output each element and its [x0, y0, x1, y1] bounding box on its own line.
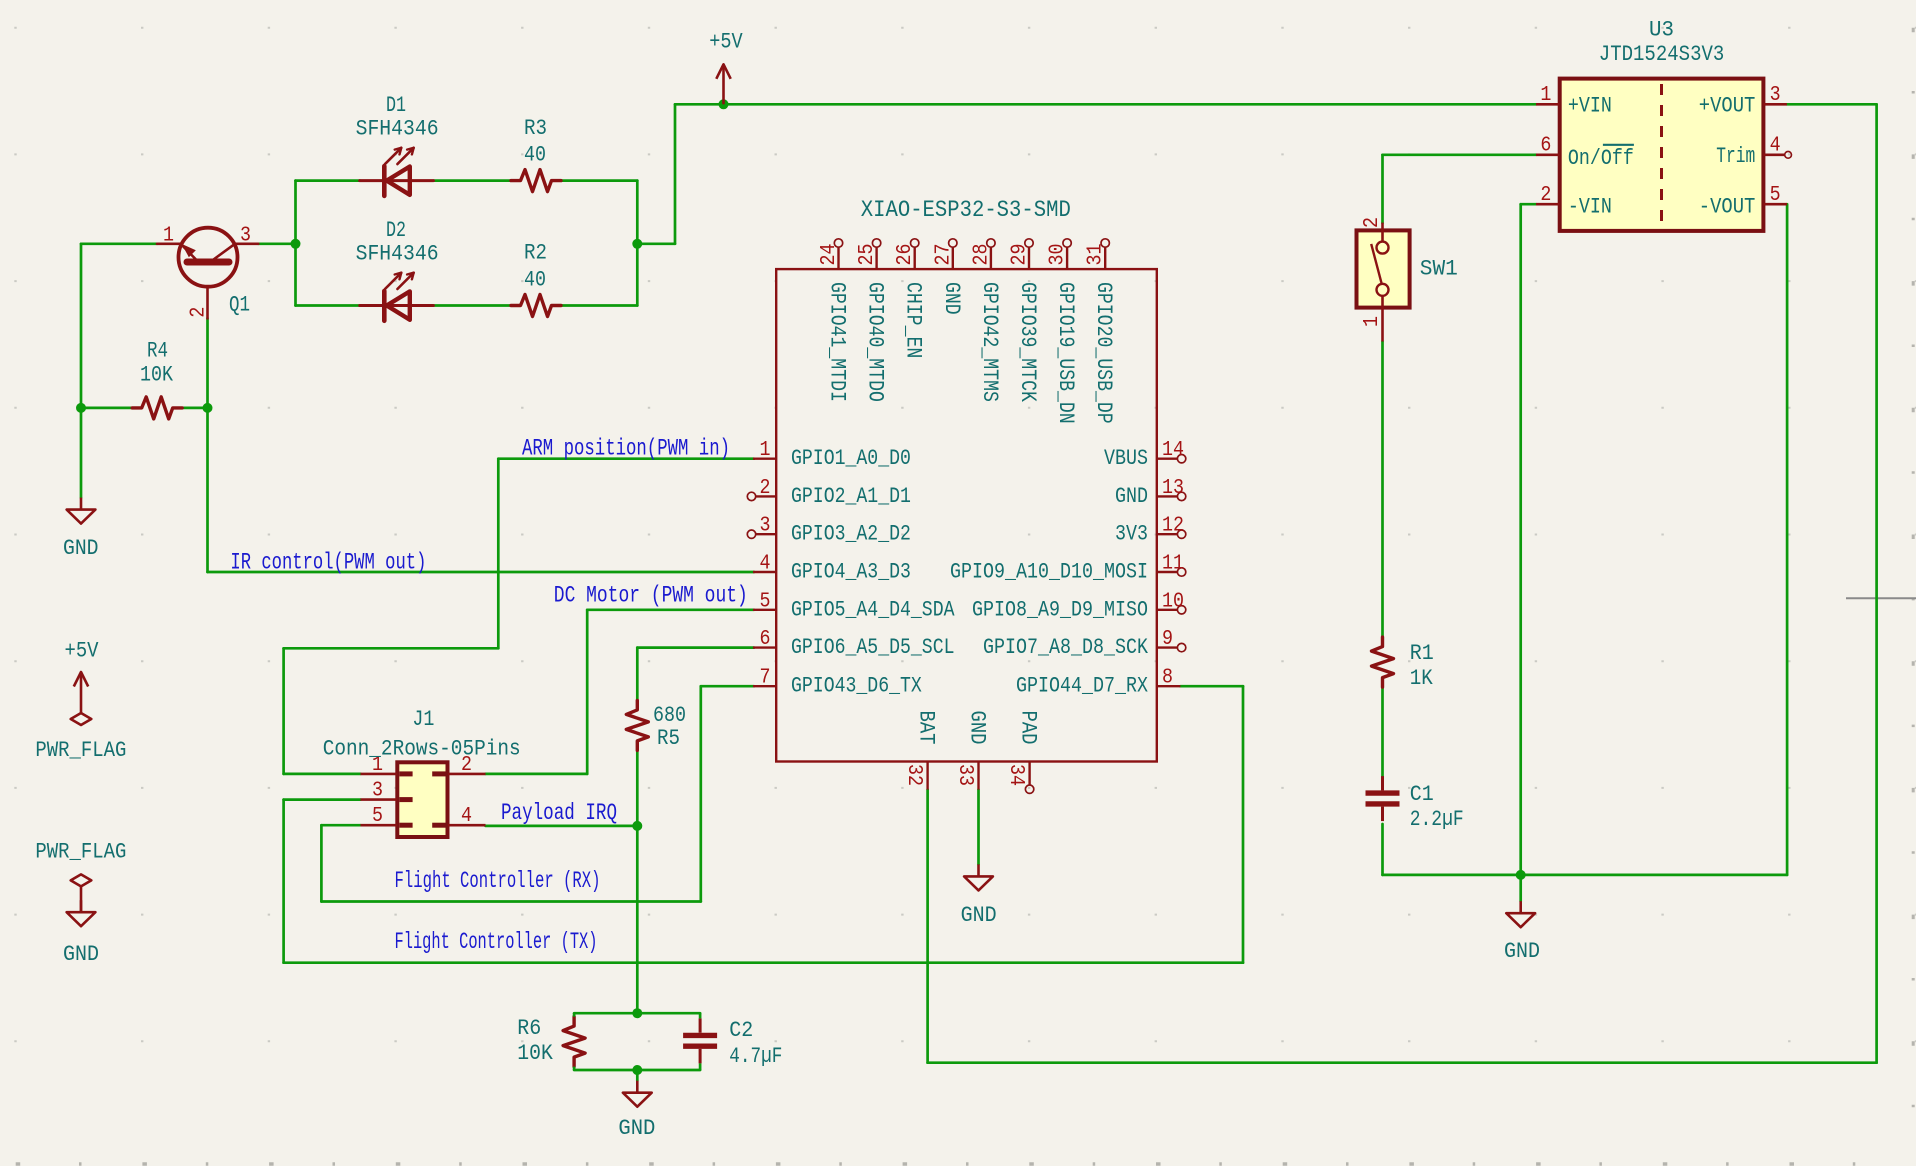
wire ARM position to ESP pin1	[498, 457, 754, 460]
U3 pin 6 lead	[1536, 154, 1560, 157]
ground bottom center	[623, 1081, 652, 1107]
wire Flight Controller TX	[284, 961, 1243, 964]
wire Flight Controller RX	[321, 900, 700, 903]
SW1 pin 1 lead	[1381, 296, 1384, 342]
wire BAT down	[926, 790, 929, 1063]
wire D2 to R2	[434, 304, 511, 307]
junction R4 right node	[203, 403, 213, 413]
junction R6C2 top node	[632, 1008, 642, 1018]
wire to GND top left	[80, 408, 83, 498]
power +5V left	[74, 672, 88, 713]
ESP32 pin 27 lead (unconnected)	[952, 248, 954, 270]
ESP32 pin 12 lead	[1157, 533, 1177, 535]
svg-text:10K: 10K	[517, 1041, 553, 1066]
ESP32 pin 6 lead	[753, 646, 776, 648]
wire payload node down to R6C2	[636, 826, 639, 1013]
wire R2 to right vertical	[561, 304, 637, 307]
capacitor C1	[1366, 776, 1400, 821]
wire On/Off to SW1	[1383, 153, 1537, 156]
J1 pin 2 lead	[448, 773, 485, 776]
ESP32 pin 3 lead	[756, 533, 776, 535]
svg-text:On/Off: On/Off	[1568, 146, 1634, 171]
wire diode mid to +5V drop	[637, 242, 675, 245]
resistor R4	[132, 397, 182, 419]
power flag stem	[80, 886, 83, 912]
ESP32 pin 24 lead (unconnected)	[837, 248, 839, 270]
wire to J1 pin3	[284, 798, 361, 801]
svg-text:6: 6	[1540, 135, 1551, 158]
wire R1 to C1	[1381, 687, 1384, 776]
svg-text:Conn_2Rows-05Pins: Conn_2Rows-05Pins	[323, 737, 521, 762]
svg-text:+5V: +5V	[709, 30, 743, 55]
ESP32 pin 29 lead (unconnected)	[1028, 248, 1030, 270]
svg-text:C1: C1	[1410, 782, 1434, 807]
wire ARM horizontal	[284, 647, 499, 650]
svg-text:14: 14	[1162, 439, 1184, 462]
svg-text:DC Motor (PWM out): DC Motor (PWM out)	[554, 583, 748, 609]
svg-text:GPIO19_USB_DN: GPIO19_USB_DN	[1053, 282, 1078, 424]
connector J1 body	[397, 762, 447, 837]
svg-text:2: 2	[1361, 217, 1384, 228]
svg-text:R4: R4	[147, 339, 168, 364]
junction R4 left node	[76, 403, 86, 413]
U3 pin 2 lead	[1536, 203, 1560, 206]
svg-text:ARM position(PWM in): ARM position(PWM in)	[522, 436, 730, 462]
wire C2 bottom corner	[699, 1063, 702, 1070]
svg-text:29: 29	[1009, 244, 1032, 266]
svg-text:2: 2	[760, 477, 771, 500]
ESP32 pin 5 lead	[753, 609, 776, 611]
resistor R2	[511, 295, 561, 317]
U3 pin 4 lead (unconnected)	[1763, 154, 1785, 157]
svg-text:R2: R2	[524, 241, 547, 266]
svg-text:4: 4	[760, 553, 771, 576]
svg-text:2: 2	[188, 307, 211, 318]
resistor R5	[626, 700, 648, 750]
wire C2 top corner	[699, 1013, 702, 1018]
svg-text:GPIO5_A4_D4_SDA: GPIO5_A4_D4_SDA	[791, 597, 955, 622]
wire D2 anode	[296, 304, 360, 307]
svg-text:Trim: Trim	[1716, 144, 1755, 169]
svg-text:GPIO44_D7_RX: GPIO44_D7_RX	[1016, 674, 1148, 699]
wire pin8 vertical	[1242, 686, 1245, 963]
svg-text:4: 4	[461, 805, 472, 828]
svg-text:JTD1524S3V3: JTD1524S3V3	[1599, 42, 1725, 67]
svg-text:10K: 10K	[140, 363, 174, 388]
power flag PWR_FLAG lower	[71, 874, 92, 886]
power +5V top	[716, 64, 730, 104]
svg-text:33: 33	[953, 764, 976, 786]
svg-text:3: 3	[240, 225, 251, 248]
svg-text:Flight Controller (TX): Flight Controller (TX)	[395, 929, 598, 955]
wire ESP pin8 row	[1180, 685, 1243, 688]
svg-text:32: 32	[902, 764, 925, 786]
svg-text:Q1: Q1	[229, 293, 250, 318]
svg-text:1K: 1K	[1410, 666, 1434, 691]
wire R5 bottom to payload node	[636, 750, 639, 826]
wire diode rows right vertical	[636, 181, 639, 306]
ESP32 pin 32 lead	[926, 762, 928, 790]
J1 pin 4 lead	[448, 824, 485, 827]
wire left rail down to R4	[80, 244, 83, 408]
wire pin7 vertical	[699, 686, 702, 901]
svg-text:13: 13	[1162, 477, 1184, 500]
ESP32 pin 14 lead	[1157, 458, 1177, 460]
svg-text:GPIO2_A1_D1: GPIO2_A1_D1	[791, 484, 911, 509]
svg-text:Payload IRQ: Payload IRQ	[501, 800, 617, 826]
ESP32 pin 1 lead	[753, 458, 776, 460]
ESP32 pin 7 lead	[753, 685, 776, 687]
power flag PWR_FLAG upper	[71, 713, 92, 725]
svg-text:D1: D1	[386, 93, 406, 118]
svg-text:R1: R1	[1410, 641, 1434, 666]
svg-text:2.2µF: 2.2µF	[1410, 807, 1464, 832]
svg-text:10: 10	[1162, 590, 1184, 613]
svg-text:J1: J1	[412, 707, 434, 732]
svg-text:BAT: BAT	[914, 711, 939, 745]
svg-text:GND: GND	[965, 711, 990, 745]
wire R4 left	[81, 407, 133, 410]
wire RX up to J1 pin5	[320, 825, 323, 901]
svg-text:34: 34	[1004, 764, 1027, 786]
wire R6C2 bottom rail left	[574, 1069, 637, 1072]
svg-text:-VOUT: -VOUT	[1699, 194, 1756, 219]
wire -VOUT vertical	[1786, 204, 1789, 875]
svg-text:3V3: 3V3	[1115, 522, 1148, 547]
ground bottom right	[1506, 901, 1535, 927]
svg-text:24: 24	[818, 244, 841, 266]
U3 pin 3 lead	[1763, 103, 1787, 106]
svg-text:11: 11	[1162, 553, 1184, 576]
wire +5V rail drop	[674, 104, 677, 244]
U3 pin 5 lead	[1763, 203, 1787, 206]
U3 pin 1 lead	[1536, 103, 1560, 106]
wire pin6 down to R5	[636, 648, 639, 701]
ESP32 pin 9 lead	[1157, 646, 1177, 648]
junction R6C2 bottom node	[632, 1065, 642, 1075]
ESP32 pin 8 lead	[1157, 685, 1181, 687]
svg-text:GPIO40_MTDO: GPIO40_MTDO	[863, 282, 888, 402]
svg-text:R3: R3	[524, 116, 547, 141]
J1 pin 2 stub	[432, 771, 445, 776]
wire to GND bottom center	[636, 1070, 639, 1081]
svg-text:9: 9	[1162, 628, 1173, 651]
svg-text:GND: GND	[1504, 939, 1540, 964]
junction +5V rail	[719, 99, 729, 109]
svg-text:GPIO39_MTCK: GPIO39_MTCK	[1015, 282, 1040, 403]
svg-text:PWR_FLAG: PWR_FLAG	[35, 839, 126, 864]
wire to J1 pin5	[321, 824, 360, 827]
svg-text:12: 12	[1162, 515, 1184, 538]
svg-text:GND: GND	[1115, 484, 1148, 509]
svg-text:3: 3	[372, 780, 383, 803]
wire R4 right	[182, 407, 208, 410]
J1 pin 3 stub	[399, 797, 412, 802]
ground under ESP32	[964, 864, 993, 890]
svg-text:1: 1	[1361, 316, 1384, 327]
ESP32 pin 28 lead (unconnected)	[990, 248, 992, 270]
svg-text:27: 27	[932, 244, 955, 266]
J1 pin 5 stub	[399, 823, 412, 828]
wire DC motor vertical	[586, 610, 589, 774]
svg-text:6: 6	[760, 628, 771, 651]
wire R3 to right vertical	[561, 179, 637, 182]
svg-text:GPIO20_USB_DP: GPIO20_USB_DP	[1091, 282, 1116, 424]
svg-text:VBUS: VBUS	[1104, 446, 1148, 471]
svg-text:SW1: SW1	[1420, 257, 1458, 282]
wire Q1 emitter left	[81, 242, 157, 245]
wire diode rows left vertical	[294, 181, 297, 306]
svg-text:28: 28	[970, 244, 993, 266]
wire Payload IRQ from J1 pin4	[486, 825, 638, 828]
svg-text:GND: GND	[63, 536, 99, 561]
svg-text:5: 5	[372, 805, 383, 828]
wire +VOUT right vertical	[1875, 104, 1878, 1062]
wire ESP pin7 row	[701, 685, 754, 688]
svg-text:U3: U3	[1649, 18, 1674, 43]
svg-text:SFH4346: SFH4346	[356, 117, 439, 142]
svg-text:+VIN: +VIN	[1568, 93, 1612, 118]
resistor R6	[563, 1017, 585, 1067]
J1 pin 3 lead	[361, 798, 398, 801]
svg-text:25: 25	[856, 244, 879, 266]
svg-text:3: 3	[760, 515, 771, 538]
svg-text:GPIO42_MTMS: GPIO42_MTMS	[977, 282, 1002, 402]
svg-text:XIAO-ESP32-S3-SMD: XIAO-ESP32-S3-SMD	[861, 197, 1071, 223]
ESP32 pin 26 lead (unconnected)	[914, 248, 916, 270]
J1 pin 4 stub	[432, 823, 445, 828]
wire Q1 collector to branch	[258, 242, 295, 245]
svg-text:R6: R6	[517, 1016, 541, 1041]
SW1 pin 2 lead	[1381, 223, 1384, 242]
svg-text:CHIP_EN: CHIP_EN	[901, 282, 926, 358]
ESP32 pin 33 lead	[977, 762, 979, 790]
svg-text:3: 3	[1770, 84, 1781, 107]
IR LED D2	[360, 273, 434, 321]
ground top left	[67, 498, 96, 524]
svg-text:GPIO7_A8_D8_SCK: GPIO7_A8_D8_SCK	[983, 635, 1149, 660]
svg-text:1: 1	[163, 225, 174, 248]
junction Payload IRQ node	[632, 821, 642, 831]
svg-text:GPIO6_A5_D5_SCL: GPIO6_A5_D5_SCL	[791, 635, 955, 660]
wire ARM vertical	[497, 459, 500, 649]
wire R6 bottom corner	[573, 1067, 576, 1070]
svg-text:GPIO43_D6_TX: GPIO43_D6_TX	[791, 674, 922, 699]
wire R6 top corner	[573, 1013, 576, 1016]
svg-text:30: 30	[1047, 244, 1070, 266]
svg-text:1: 1	[760, 439, 771, 462]
resistor R1	[1372, 637, 1394, 687]
svg-text:7: 7	[760, 667, 771, 690]
SW1 contacts and lever	[1371, 242, 1388, 296]
svg-text:26: 26	[894, 244, 917, 266]
svg-text:Flight Controller (RX): Flight Controller (RX)	[395, 868, 601, 894]
wire to J1 pin2	[486, 773, 588, 776]
wire D1 to R3	[434, 179, 511, 182]
ESP32 pin 2 lead	[756, 495, 776, 497]
svg-text:GND: GND	[939, 282, 964, 315]
wire SW1 pin1 to R1	[1381, 342, 1384, 638]
IR LED D1	[360, 148, 434, 196]
ESP32 pin 11 lead	[1157, 571, 1177, 573]
wire SW1 pin2 drop	[1381, 155, 1384, 223]
wire R6C2 top rail left	[574, 1012, 637, 1015]
svg-text:GPIO3_A2_D2: GPIO3_A2_D2	[791, 522, 911, 547]
svg-text:5: 5	[760, 590, 771, 613]
ground under PWR_FLAG	[67, 900, 96, 926]
transistor Q1	[157, 228, 258, 319]
ESP32 pin 25 lead (unconnected)	[875, 248, 877, 270]
wire +5V rail top	[675, 103, 1536, 106]
svg-text:2: 2	[1540, 184, 1551, 207]
svg-text:5: 5	[1770, 184, 1781, 207]
svg-text:GND: GND	[961, 903, 997, 928]
svg-text:+VOUT: +VOUT	[1699, 93, 1756, 118]
svg-text:R5: R5	[657, 726, 680, 751]
stray grey line artifact right edge	[1846, 597, 1916, 599]
junction Q1 collector branch	[291, 239, 301, 249]
svg-text:GPIO4_A3_D3: GPIO4_A3_D3	[791, 560, 911, 585]
svg-text:-VIN: -VIN	[1568, 194, 1612, 219]
wire ARM down to J1 pin1	[282, 648, 285, 774]
svg-text:GPIO9_A10_D10_MOSI: GPIO9_A10_D10_MOSI	[950, 560, 1148, 585]
wire base node to IR control	[206, 408, 209, 572]
wire gnd stub	[1519, 875, 1522, 901]
ESP32 pin 10 lead	[1157, 609, 1177, 611]
svg-text:31: 31	[1085, 244, 1108, 266]
U3 On/Off overbar	[1603, 144, 1634, 146]
switch SW1 body	[1357, 230, 1410, 307]
svg-text:4.7µF: 4.7µF	[729, 1044, 782, 1069]
U3 dashed divider	[1660, 84, 1663, 226]
wire D1 anode	[296, 179, 360, 182]
svg-text:PAD: PAD	[1016, 711, 1041, 745]
wire IR control to ESP pin4	[208, 571, 755, 574]
svg-text:GPIO41_MTDI: GPIO41_MTDI	[825, 282, 850, 402]
ESP32 pin 31 lead (unconnected)	[1104, 248, 1106, 270]
svg-text:8: 8	[1162, 667, 1173, 690]
J1 pin 1 lead	[361, 773, 398, 776]
ESP32 pin 13 lead	[1157, 495, 1177, 497]
wire C1 to gnd rail	[1381, 824, 1384, 875]
svg-text:D2: D2	[386, 218, 406, 243]
svg-text:40: 40	[524, 143, 546, 168]
wire ESP GND pin down	[977, 790, 980, 865]
J1 pin 1 stub	[399, 771, 412, 776]
module XIAO-ESP32-S3-SMD body	[776, 269, 1157, 761]
wire DC motor to ESP pin5	[587, 608, 754, 611]
svg-text:40: 40	[524, 268, 546, 293]
svg-text:+5V: +5V	[65, 639, 100, 664]
wire TX up to J1 pin3	[282, 800, 285, 963]
svg-text:IR control(PWM out): IR control(PWM out)	[230, 550, 426, 576]
svg-text:1: 1	[1540, 84, 1551, 107]
svg-text:C2: C2	[729, 1018, 753, 1043]
wire gnd rail right	[1383, 874, 1788, 877]
wire R6C2 top rail right	[637, 1012, 700, 1015]
resistor R3	[511, 170, 561, 192]
J1 pin 5 lead	[361, 824, 398, 827]
svg-text:680: 680	[653, 703, 686, 728]
wire -VIN stub	[1521, 203, 1536, 206]
svg-text:GPIO1_A0_D0: GPIO1_A0_D0	[791, 446, 911, 471]
svg-text:GND: GND	[618, 1116, 655, 1141]
ESP32 pin 4 lead	[753, 571, 776, 573]
wire Q1 base down	[206, 318, 209, 408]
svg-text:SFH4346: SFH4346	[356, 242, 439, 267]
svg-text:GND: GND	[63, 942, 99, 967]
wire +VOUT out	[1787, 103, 1877, 106]
svg-text:PWR_FLAG: PWR_FLAG	[35, 738, 126, 763]
junction diode branch right	[632, 239, 642, 249]
regulator U3 body	[1560, 79, 1764, 231]
junction output gnd node	[1516, 870, 1526, 880]
ESP32 pin 34 lead	[1028, 762, 1030, 786]
wire -VIN vertical	[1519, 204, 1522, 875]
capacitor C2	[683, 1018, 717, 1063]
wire R6C2 bottom rail right	[637, 1069, 700, 1072]
wire to J1 pin1	[284, 773, 361, 776]
svg-text:4: 4	[1770, 135, 1781, 158]
wire ESP pin6 row	[637, 646, 754, 649]
svg-text:GPIO8_A9_D9_MISO: GPIO8_A9_D9_MISO	[972, 597, 1148, 622]
ESP32 pin 30 lead (unconnected)	[1066, 248, 1068, 270]
wire 3V3 bottom rail	[928, 1061, 1877, 1064]
